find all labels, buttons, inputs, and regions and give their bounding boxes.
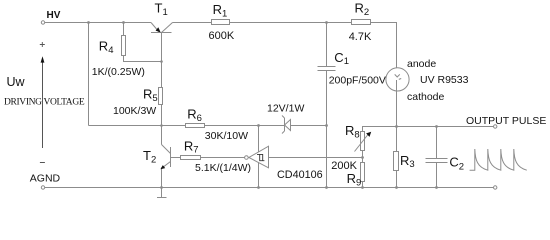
inverter hysteresis symbol [257, 154, 264, 160]
wire: R3 bottom lead to ground rail [396, 171, 398, 188]
svg-text:5.1K/(1/4W): 5.1K/(1/4W) [195, 162, 251, 174]
svg-text:200K: 200K [331, 160, 357, 172]
HV terminal circle [41, 21, 44, 24]
wire: T2 base lead to R7 [171, 157, 181, 159]
wire: T1 base / R5 / T2 collector vertical [161, 33, 163, 145]
wire: top rail from R1 to R2 [230, 22, 352, 24]
svg-text:600K: 600K [209, 30, 235, 42]
svg-text:UV R9533: UV R9533 [420, 74, 469, 86]
resistor R9 body [361, 163, 365, 182]
svg-text:100K/3W: 100K/3W [113, 105, 156, 117]
svg-text:anode: anode [407, 58, 436, 70]
node: ground rail / VDD drop [257, 186, 260, 189]
wire: R8 top lead and output line to terminal [363, 127, 494, 132]
svg-text:30K/10W: 30K/10W [205, 130, 248, 142]
svg-text:HV: HV [47, 10, 61, 21]
wire: UV tube cathode lead down to R3 [396, 80, 398, 152]
minus sign annotation [40, 162, 45, 164]
zener diode 12V/1W anode triangle [285, 120, 291, 131]
node: 12V node / VDD drop [257, 124, 260, 127]
node: output line / UV cathode [395, 125, 398, 128]
transistor T2 (NPN, base to the right) [170, 147, 172, 167]
wire: C2 bottom lead to ground rail [436, 163, 438, 188]
resistor R4 body [122, 36, 126, 56]
svg-text:4.7K: 4.7K [349, 31, 372, 43]
wire: bottom AGND rail [45, 187, 493, 189]
wire: R4 bottom lead to T1 base node [124, 56, 162, 62]
svg-text:200pF/500V: 200pF/500V [329, 75, 386, 87]
node: HV rail / left rail [87, 21, 90, 24]
node: ground rail / C1 vertical [325, 186, 328, 189]
node: ground rail / R9 [361, 186, 364, 189]
svg-text:cathode: cathode [407, 91, 445, 103]
resistor R7 body [181, 156, 201, 160]
wire: R9 bottom lead to ground rail [362, 182, 364, 188]
wire: R7 to inverter output bubble [201, 157, 245, 159]
transistor T1 emitter arrowhead [156, 27, 161, 32]
resistor R1 body [212, 20, 230, 25]
ground symbol below rail [157, 188, 167, 198]
resistor R3 body [394, 152, 399, 171]
wire: T2 emitter vertical to ground rail [161, 168, 163, 188]
wire: inverter input line to R8/R9 junction [269, 157, 363, 159]
node: output line / C2 [435, 125, 438, 128]
wire: left HV rail down to R6 line [88, 23, 90, 126]
zener diode 12V/1W cathode bar [282, 116, 285, 134]
resistor R5 body [159, 88, 163, 105]
transistor T2 emitter arrowhead [160, 165, 165, 169]
plus sign annotation [40, 42, 45, 47]
node: ground rail / C2 [435, 186, 438, 189]
wire: CD40106 VDD drop from 12V node to ground rail [258, 126, 260, 188]
node: R6 line / base vertical [160, 124, 163, 127]
transistor T1 (PNP, inline in top rail) [151, 23, 160, 33]
wire: C1 top lead from top rail [326, 23, 328, 67]
node: zener line / C1 ground vertical [325, 124, 328, 127]
node: HV rail / C1 [325, 21, 328, 24]
svg-text:1K/(0.25W): 1K/(0.25W) [92, 66, 145, 78]
wire: R8 bottom lead through wiper junction to R9 [362, 151, 364, 163]
wire: top rail from HV to T1 emitter stub [45, 22, 151, 24]
svg-text:DRIVING VOLTAGE: DRIVING VOLTAGE [4, 97, 85, 107]
resistor R6 body [186, 124, 205, 128]
svg-text:AGND: AGND [30, 172, 61, 184]
svg-text:CD40106: CD40106 [277, 169, 323, 181]
output pulse waveform [470, 149, 527, 170]
potentiometer R8 body [361, 132, 365, 151]
inverter output bubble [245, 156, 249, 160]
output pulse top terminal circle [494, 125, 497, 128]
node: input line / R8-R9 junction [361, 156, 364, 159]
capacitor C1 plates [318, 67, 336, 71]
svg-text:OUTPUT PULSE: OUTPUT PULSE [466, 115, 546, 127]
wire: top rail from R2 to right corner, down to UV tube anode [371, 23, 397, 69]
node: ground rail / R3 [395, 186, 398, 189]
R8 wiper arrow line [355, 135, 369, 152]
node: R4 line / base vertical [160, 60, 163, 63]
AGND terminal circle [41, 186, 44, 189]
svg-text:12V/1W: 12V/1W [267, 103, 304, 115]
inverter U1 CD40106 triangle [249, 146, 269, 168]
wire: R6 line from left rail to zener [89, 125, 285, 127]
node: HV rail / R4 [122, 21, 125, 24]
output pulse bottom terminal circle [494, 186, 497, 189]
wire: zener line to C1/ground vertical [291, 125, 327, 127]
R8 wiper arrowhead [366, 132, 371, 137]
UV tube circle [386, 68, 409, 91]
UV tube inner symbol [395, 74, 402, 79]
wire: R4 top lead [123, 23, 125, 36]
resistor R2 body [352, 20, 371, 25]
wire: top rail from T1 collector stub to R1 [173, 22, 212, 24]
wire: C1 bottom lead down to 12V node and ground [326, 71, 328, 188]
capacitor C2 plates [426, 159, 448, 163]
node: ground rail / T2 emitter [160, 186, 163, 189]
Uw driving voltage annotation arrow [42, 59, 44, 148]
wire: C2 top lead [436, 127, 438, 159]
svg-text:Uw: Uw [7, 75, 26, 89]
